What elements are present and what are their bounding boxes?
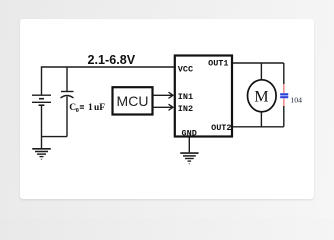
svg-text:OUT1: OUT1 [208,59,228,69]
svg-text:IN2: IN2 [178,104,193,114]
svg-text:0: 0 [76,107,79,114]
svg-text:OUT2: OUT2 [211,123,231,133]
svg-text:2.1-6.8V: 2.1-6.8V [88,53,136,67]
svg-text:uF: uF [94,103,105,113]
svg-text:GND: GND [182,128,197,138]
svg-text:M: M [254,89,268,106]
svg-text:MCU: MCU [117,93,149,109]
svg-text:IN1: IN1 [178,92,193,102]
svg-text:VCC: VCC [178,65,193,75]
svg-text:104: 104 [290,96,302,105]
svg-text:1: 1 [88,103,93,113]
